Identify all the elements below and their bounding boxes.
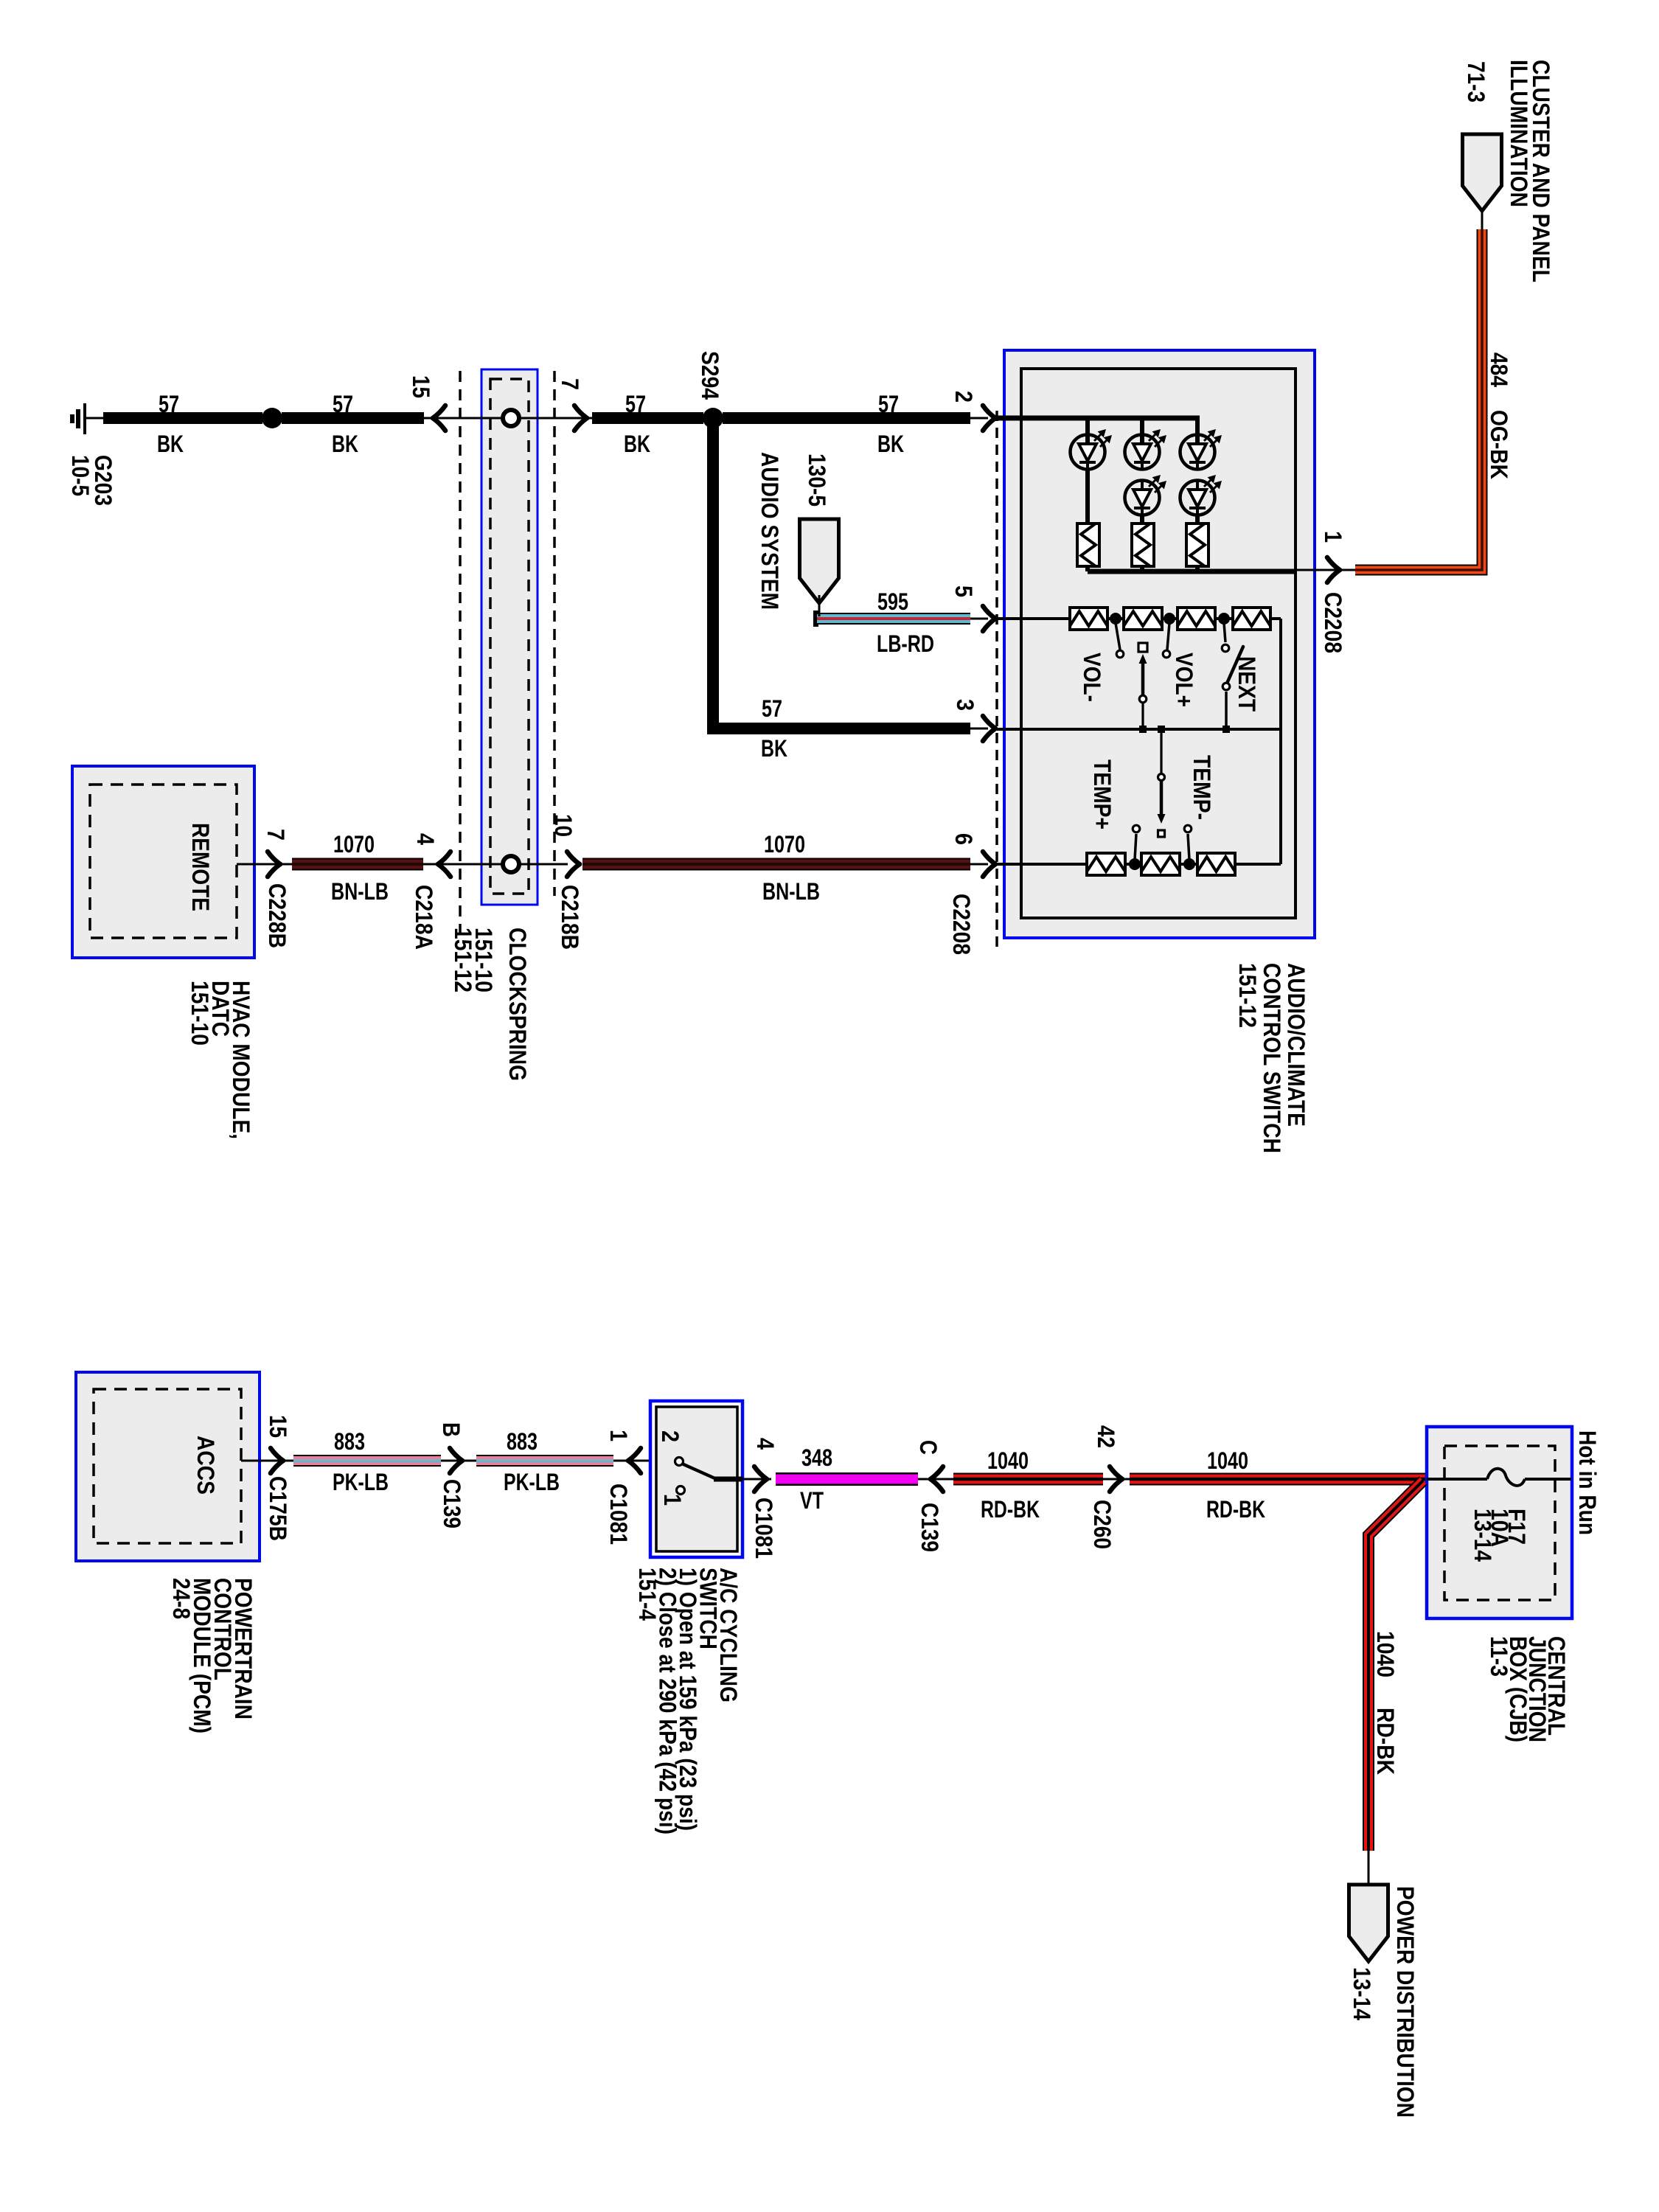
svg-text:C260: C260 (1089, 1500, 1116, 1549)
svg-text:883: 883 (507, 1428, 538, 1455)
svg-text:BK: BK (761, 735, 787, 762)
svg-text:REMOTE: REMOTE (187, 823, 214, 911)
svg-text:RD-BK: RD-BK (1372, 1708, 1399, 1775)
svg-text:130-5: 130-5 (804, 453, 830, 507)
svg-text:4: 4 (752, 1438, 779, 1450)
svg-text:CLOCKSPRING: CLOCKSPRING (504, 928, 531, 1081)
svg-text:1070: 1070 (333, 831, 375, 858)
svg-text:NEXT: NEXT (1234, 656, 1260, 712)
svg-text:C: C (915, 1440, 942, 1455)
svg-text:BK: BK (877, 431, 904, 457)
svg-text:LB-RD: LB-RD (877, 630, 934, 657)
svg-text:C1081: C1081 (751, 1498, 777, 1559)
svg-text:57: 57 (762, 695, 782, 722)
svg-text:C139: C139 (917, 1503, 943, 1552)
svg-text:OG-BK: OG-BK (1486, 410, 1512, 479)
svg-text:1040: 1040 (1207, 1447, 1248, 1474)
svg-text:B: B (438, 1422, 465, 1437)
svg-text:BK: BK (157, 431, 184, 457)
svg-text:C228B: C228B (264, 883, 291, 948)
svg-text:24-8: 24-8 (168, 1578, 195, 1619)
svg-text:VOL-: VOL- (1079, 653, 1105, 702)
svg-text:151-4: 151-4 (634, 1568, 661, 1621)
svg-text:1070: 1070 (764, 831, 805, 858)
svg-text:PK-LB: PK-LB (333, 1469, 389, 1495)
svg-text:VOL+: VOL+ (1171, 653, 1197, 707)
svg-text:57: 57 (159, 391, 179, 417)
svg-text:BN-LB: BN-LB (331, 878, 389, 905)
svg-text:71-3: 71-3 (1463, 61, 1489, 102)
svg-text:TEMP+: TEMP+ (1089, 759, 1116, 829)
svg-text:595: 595 (877, 588, 908, 615)
svg-text:C218B: C218B (557, 885, 583, 950)
svg-text:S294: S294 (697, 351, 723, 400)
svg-text:1: 1 (659, 1494, 686, 1506)
svg-text:ACCS: ACCS (192, 1436, 219, 1495)
svg-text:57: 57 (878, 391, 899, 417)
svg-text:1040: 1040 (1372, 1631, 1399, 1677)
svg-text:4: 4 (412, 833, 439, 845)
svg-text:15: 15 (408, 375, 434, 398)
svg-text:AUDIO SYSTEM: AUDIO SYSTEM (757, 452, 783, 610)
svg-text:3: 3 (952, 699, 978, 711)
svg-text:1: 1 (605, 1430, 632, 1441)
svg-text:348: 348 (801, 1444, 832, 1471)
svg-text:ILLUMINATION: ILLUMINATION (1506, 60, 1532, 207)
svg-text:RD-BK: RD-BK (981, 1496, 1040, 1523)
svg-text:C218A: C218A (411, 885, 437, 950)
svg-text:C139: C139 (439, 1479, 465, 1528)
svg-text:Hot in Run: Hot in Run (1574, 1430, 1601, 1535)
svg-text:57: 57 (333, 391, 353, 417)
svg-text:CONTROL SWITCH: CONTROL SWITCH (1259, 963, 1285, 1153)
svg-text:RD-BK: RD-BK (1206, 1496, 1265, 1523)
svg-text:57: 57 (625, 391, 646, 417)
svg-text:AUDIO/CLIMATE: AUDIO/CLIMATE (1283, 963, 1310, 1127)
svg-text:C175B: C175B (265, 1476, 291, 1541)
svg-text:BK: BK (624, 431, 650, 457)
svg-text:151-10: 151-10 (187, 981, 213, 1046)
svg-text:13-14: 13-14 (1470, 1509, 1496, 1562)
svg-text:1: 1 (1320, 531, 1346, 543)
svg-text:15: 15 (265, 1415, 291, 1438)
svg-text:13-14: 13-14 (1349, 1967, 1375, 2020)
svg-text:5: 5 (950, 585, 977, 597)
svg-text:151-12: 151-12 (1234, 963, 1261, 1028)
svg-text:C2208: C2208 (948, 894, 975, 955)
svg-text:7: 7 (262, 829, 289, 841)
svg-text:TEMP-: TEMP- (1189, 755, 1215, 820)
svg-text:VT: VT (800, 1487, 824, 1514)
svg-text:10-5: 10-5 (67, 455, 94, 496)
svg-text:484: 484 (1486, 352, 1512, 387)
svg-text:BN-LB: BN-LB (762, 878, 820, 905)
svg-text:POWER DISTRIBUTION: POWER DISTRIBUTION (1392, 1886, 1419, 2118)
svg-text:BK: BK (332, 431, 358, 457)
svg-text:2: 2 (950, 391, 977, 403)
svg-text:1040: 1040 (987, 1447, 1029, 1474)
svg-text:C1081: C1081 (605, 1484, 632, 1545)
svg-text:883: 883 (334, 1428, 365, 1455)
svg-text:PK-LB: PK-LB (504, 1469, 560, 1495)
svg-text:7: 7 (557, 378, 583, 390)
svg-text:C2208: C2208 (1320, 592, 1346, 653)
svg-text:10: 10 (550, 814, 577, 837)
svg-text:6: 6 (950, 833, 977, 845)
svg-text:11-3: 11-3 (1486, 1636, 1512, 1677)
svg-text:151-12: 151-12 (450, 928, 476, 992)
svg-text:42: 42 (1093, 1425, 1119, 1448)
svg-text:2: 2 (657, 1430, 684, 1442)
